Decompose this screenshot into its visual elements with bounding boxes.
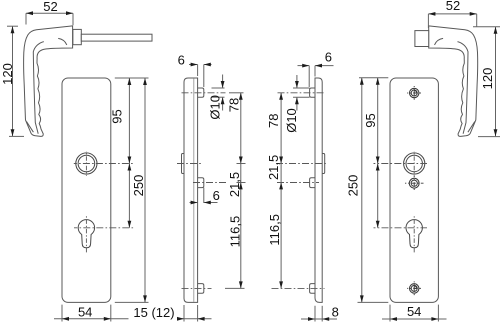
svg-text:21,5: 21,5 bbox=[266, 155, 281, 180]
svg-text:78: 78 bbox=[266, 114, 281, 128]
svg-text:15 (12): 15 (12) bbox=[133, 305, 174, 320]
svg-text:6: 6 bbox=[213, 188, 220, 203]
svg-text:52: 52 bbox=[446, 0, 460, 13]
svg-text:120: 120 bbox=[0, 63, 15, 85]
svg-text:52: 52 bbox=[43, 0, 57, 14]
svg-text:54: 54 bbox=[407, 304, 421, 319]
svg-text:116,5: 116,5 bbox=[227, 216, 242, 248]
svg-text:78: 78 bbox=[226, 98, 241, 112]
svg-text:120: 120 bbox=[480, 68, 495, 90]
svg-text:95: 95 bbox=[363, 113, 378, 127]
svg-text:95: 95 bbox=[110, 109, 125, 123]
svg-text:6: 6 bbox=[325, 49, 332, 64]
svg-text:54: 54 bbox=[78, 304, 92, 319]
svg-text:21,5: 21,5 bbox=[227, 172, 242, 197]
svg-text:250: 250 bbox=[131, 175, 146, 197]
svg-text:116,5: 116,5 bbox=[267, 214, 282, 246]
svg-text:Ø10: Ø10 bbox=[207, 95, 222, 120]
svg-text:6: 6 bbox=[178, 52, 185, 67]
svg-text:8: 8 bbox=[332, 304, 339, 319]
svg-text:Ø10: Ø10 bbox=[284, 108, 299, 133]
svg-text:250: 250 bbox=[346, 175, 361, 197]
